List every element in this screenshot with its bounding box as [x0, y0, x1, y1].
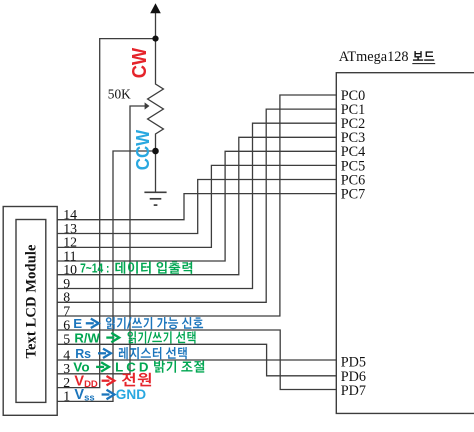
- wire: LCD pin 4 (Rs) to PD5: [57, 359, 336, 361]
- svg-text:50K: 50K: [108, 86, 131, 101]
- svg-text:CW: CW: [129, 48, 151, 79]
- svg-text:14: 14: [63, 207, 77, 222]
- resistor R1 50K potentiometer body: [148, 39, 164, 151]
- pot wiper arrow head: [145, 102, 150, 109]
- svg-text:GND: GND: [116, 387, 146, 402]
- svg-text:2: 2: [63, 375, 70, 390]
- wire: LCD pin 6 (E) to PD7: [57, 330, 336, 390]
- wire: LCD pin 14 to PC7: [57, 194, 336, 220]
- wire: LCD pin 5 (R/W) to PD6: [57, 344, 336, 376]
- svg-text:ATmega128: ATmega128: [339, 49, 409, 65]
- svg-text:6: 6: [63, 317, 70, 332]
- junction dot: VCC rail: [152, 36, 158, 42]
- svg-text:PD7: PD7: [341, 383, 366, 399]
- wire: pot wiper to pin 3 (Vo): [57, 106, 146, 374]
- wire: pot bottom to ground: [155, 151, 157, 192]
- svg-text:1: 1: [63, 389, 70, 404]
- svg-text:PC7: PC7: [341, 187, 365, 203]
- wire: pot CCW terminal to pin 1 (Vss): [57, 151, 156, 401]
- wire: LCD pin 12 to PC5: [57, 165, 336, 247]
- wire: LCD pin 13 to PC6: [57, 180, 336, 234]
- wire: VCC arrow stem: [155, 13, 157, 39]
- svg-text:13: 13: [63, 221, 77, 236]
- wire: LCD pin 9 to PC2: [57, 123, 336, 288]
- svg-text:4: 4: [63, 347, 70, 362]
- svg-text:CCW: CCW: [133, 130, 153, 171]
- svg-text:7: 7: [63, 303, 70, 318]
- svg-text:7~14 :: 7~14 :: [80, 262, 109, 276]
- Text LCD Module outer box: [3, 207, 57, 416]
- svg-text:Vo: Vo: [73, 360, 89, 375]
- Text LCD Module inner box: [16, 220, 46, 403]
- svg-text:R/W: R/W: [74, 330, 100, 345]
- svg-text:5: 5: [63, 332, 70, 347]
- wire: LCD pin 11 to PC4: [57, 151, 336, 261]
- wire: LCD pin 10 to PC3: [57, 137, 336, 274]
- svg-text:9: 9: [63, 276, 70, 291]
- wire: LCD pin 7 to PC0: [57, 95, 336, 316]
- VCC arrow head: [150, 3, 161, 13]
- junction dot: CCW terminal: [152, 148, 159, 155]
- ATmega128 board box: [336, 73, 474, 414]
- svg-text:10: 10: [63, 262, 77, 277]
- wire: LCD pin 8 to PC1: [57, 109, 336, 302]
- svg-text:3: 3: [63, 361, 70, 376]
- svg-text:LCD: LCD: [115, 360, 149, 375]
- ground symbol: [144, 192, 166, 205]
- svg-text:Text LCD Module: Text LCD Module: [23, 244, 39, 359]
- svg-text:E: E: [73, 316, 82, 331]
- wire: VCC top rail to pin 2 (VDD): [57, 39, 156, 388]
